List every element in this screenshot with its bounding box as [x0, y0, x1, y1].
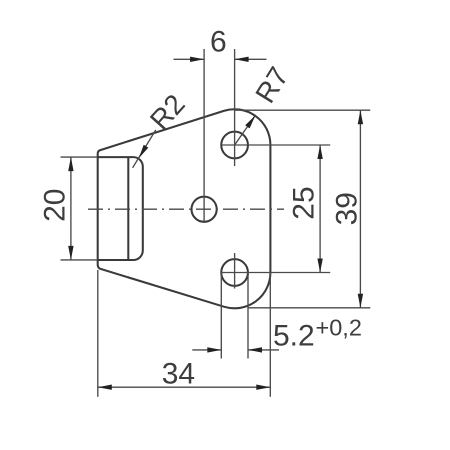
dimension 34 arrows [98, 385, 112, 390]
bottom hole horizontal centerline / 25 extension [221, 272, 331, 274]
dimension 5.2 line [192, 349, 221, 351]
svg-text:R7: R7 [249, 62, 294, 109]
bottom hole vertical centerline [234, 253, 236, 289]
flange bend profile [98, 157, 143, 260]
leader R7 arrow [245, 115, 255, 128]
dimension 20 arrows [68, 157, 73, 171]
svg-text:34: 34 [162, 357, 195, 390]
svg-text:R2: R2 [144, 88, 191, 135]
svg-text:6: 6 [210, 26, 227, 59]
dimension 6 arrows [190, 57, 204, 62]
leader R2 line [133, 130, 156, 168]
dimension 39 arrows [358, 110, 363, 124]
dimension 34 extension lines [97, 270, 99, 397]
part outline [98, 109, 271, 308]
dimension 5.2 extension lines [220, 273, 222, 359]
dimension 6 line [174, 58, 205, 60]
main horizontal centerline [88, 208, 284, 210]
svg-text:39: 39 [330, 192, 363, 225]
flange fold line [127, 157, 129, 260]
dimension 34 line [98, 386, 270, 388]
bottom hole [221, 259, 248, 286]
top hole [221, 132, 248, 159]
svg-text:5.2: 5.2 [273, 319, 315, 352]
dimension 20 extension lines [61, 156, 98, 158]
dimension 25 arrows [317, 145, 322, 159]
dimension 39 line [359, 110, 361, 308]
leader R7 line [235, 115, 256, 145]
dimension 25 line [319, 145, 321, 273]
top hole vertical centerline / 6 extension [234, 49, 236, 166]
dimension 5.2 arrows [207, 347, 221, 352]
svg-text:+0,2: +0,2 [316, 315, 362, 341]
center hole vertical centerline / 6 extension [203, 49, 205, 223]
dimension 20 line [70, 157, 72, 260]
svg-text:20: 20 [39, 189, 72, 222]
leader R2 arrow [139, 145, 149, 158]
dimension 39 extension lines [235, 109, 371, 111]
top hole horizontal centerline / 25 extension [221, 144, 330, 146]
svg-text:25: 25 [288, 186, 321, 219]
center hole [192, 197, 217, 222]
